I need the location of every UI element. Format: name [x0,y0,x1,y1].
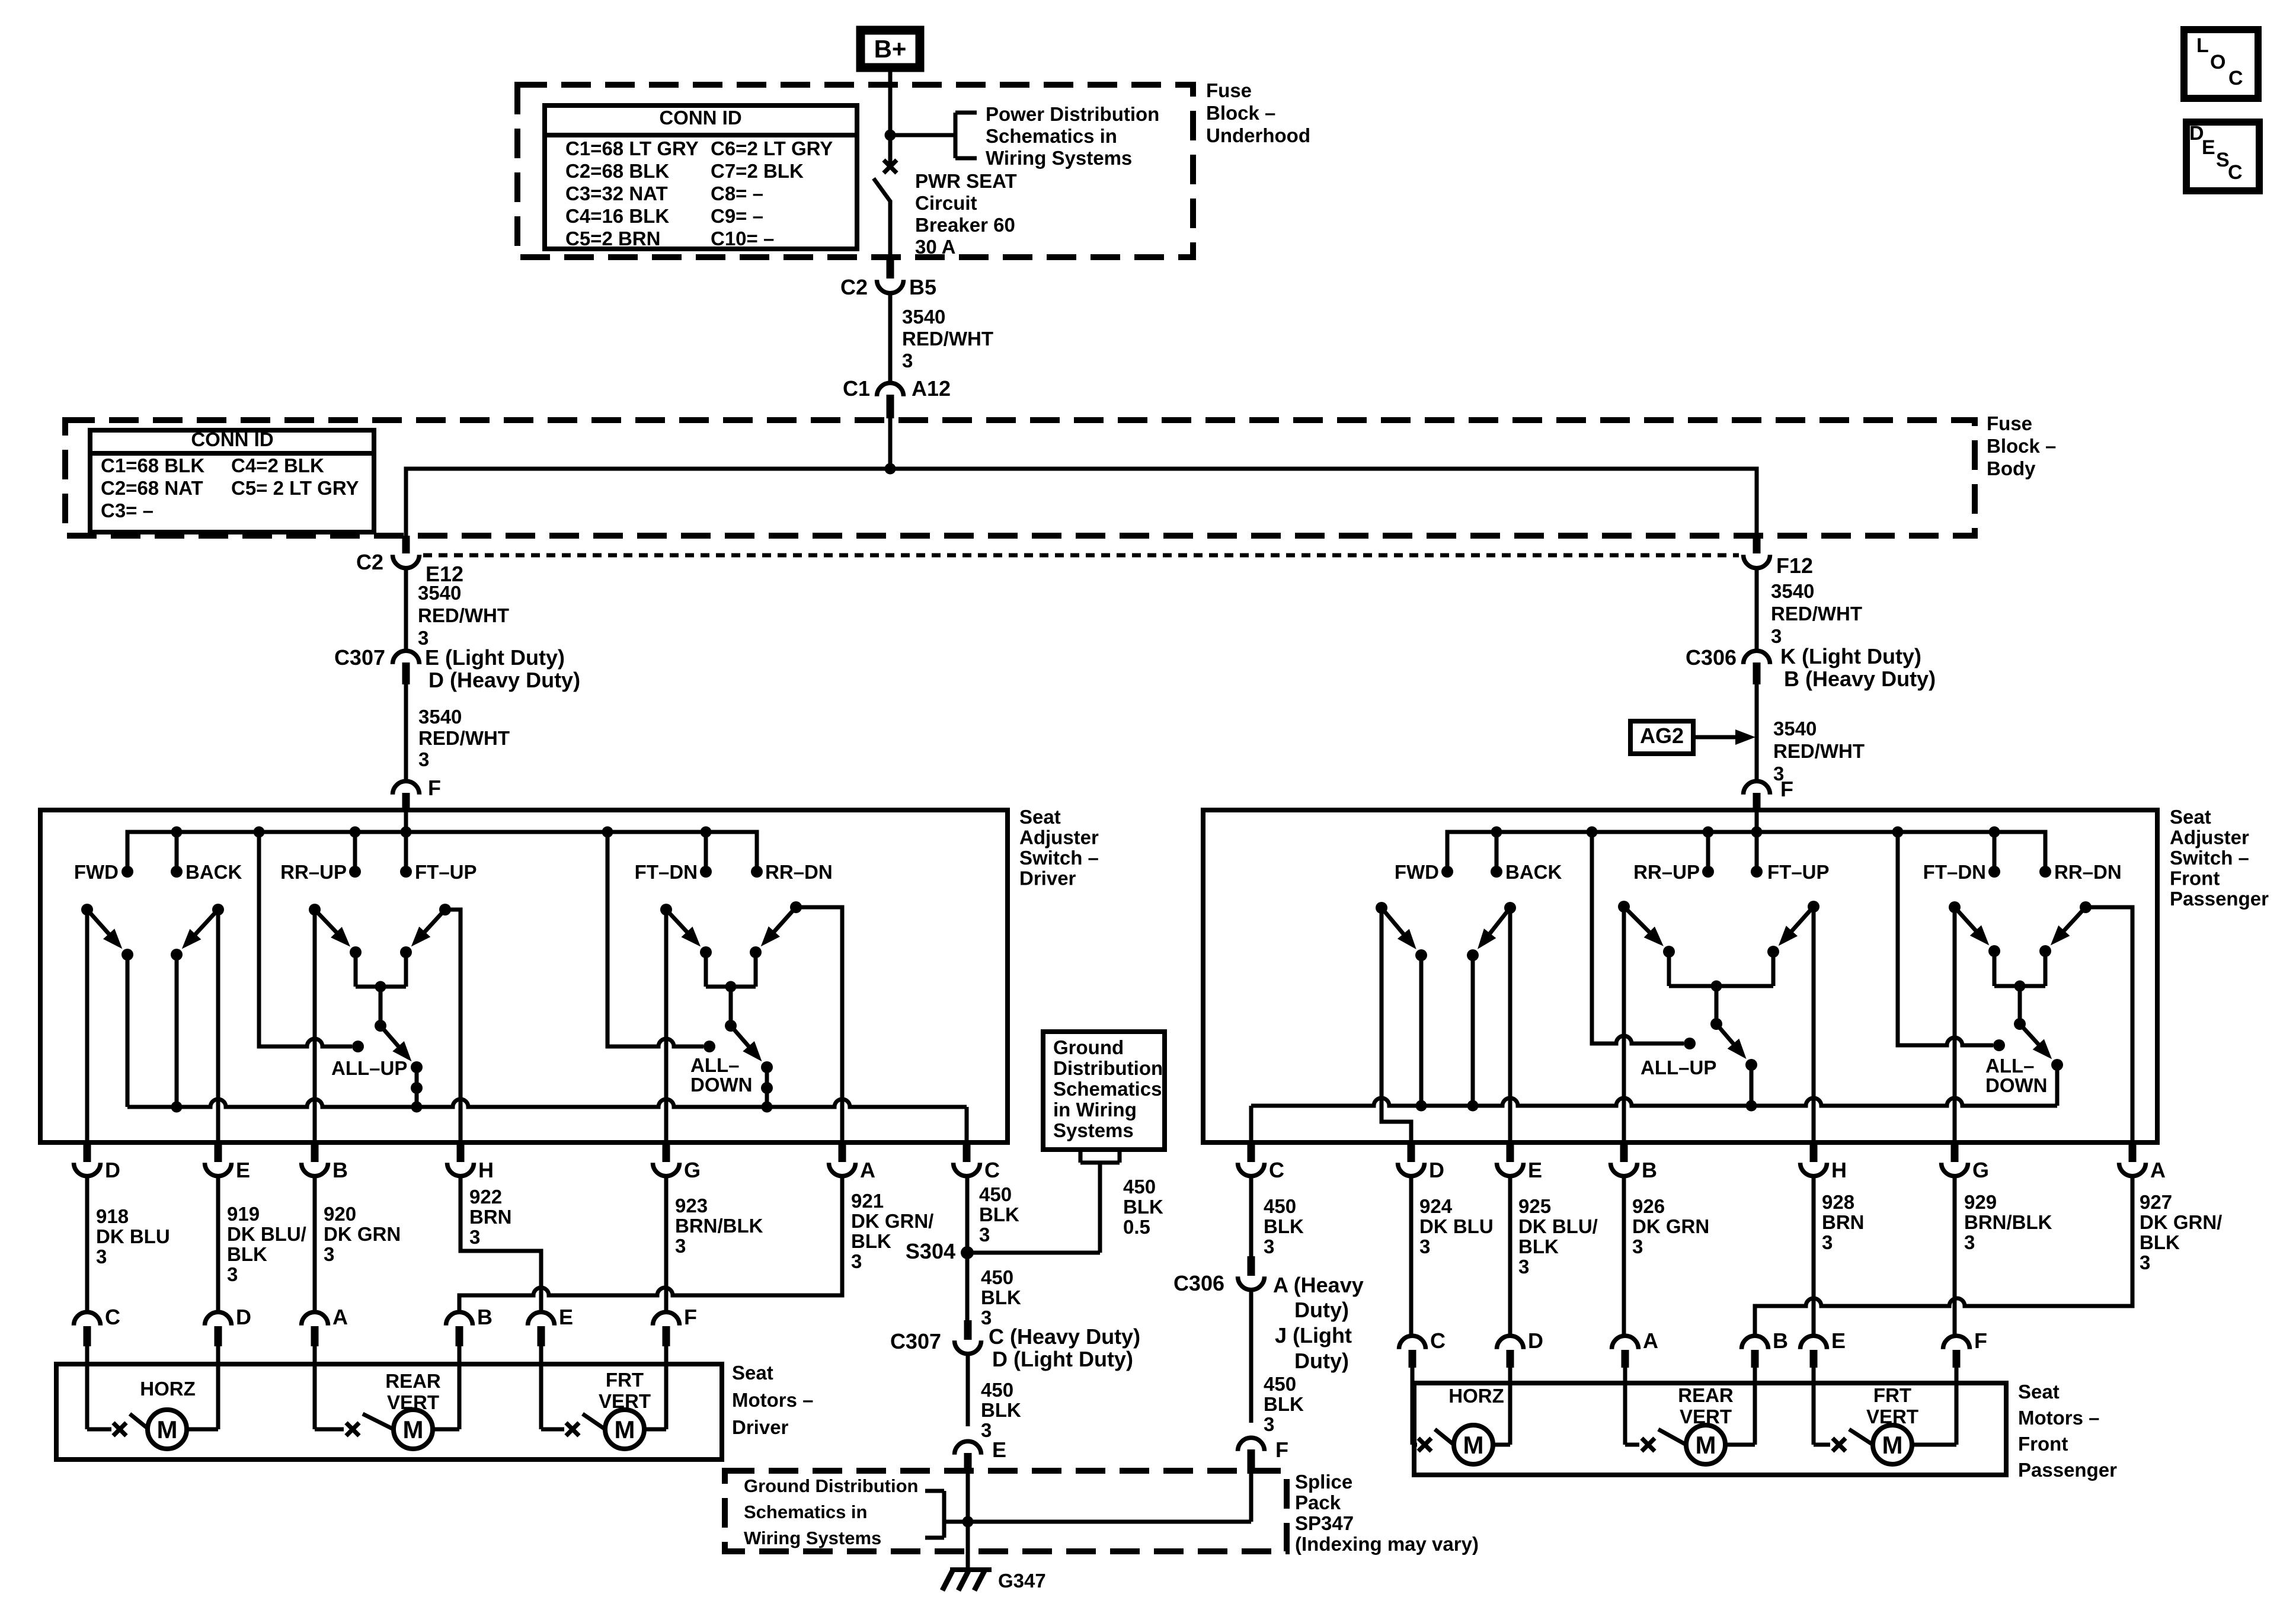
label HORZ driver [140,1378,196,1400]
svg-text:Distribution: Distribution [1053,1057,1163,1079]
wire C1 into fuse block body [888,418,893,469]
wire 923 BRN/BLK [664,1174,669,1312]
switch blade FT-UP (passenger) [1779,901,1819,946]
svg-text:Passenger: Passenger [2018,1459,2117,1481]
label wire 920 [324,1203,401,1265]
label REAR VERT passenger [1678,1384,1734,1427]
svg-text:M: M [615,1416,635,1443]
wire 921 DK GRN/BLK [459,1174,842,1312]
label wire 450 BLK (passenger 2) [1264,1373,1304,1435]
svg-text:E: E [559,1305,573,1329]
svg-text:RED/WHT: RED/WHT [418,727,510,749]
switch blade FWD (passenger) [1376,902,1416,949]
svg-text:RR–DN: RR–DN [765,861,833,883]
svg-text:3: 3 [96,1246,107,1267]
connector passenger motor pin B [1742,1329,1789,1383]
contact FT-UP (passenger) [1751,861,1830,883]
svg-text:C307: C307 [334,645,385,670]
wire 450 BLK to splice F [1249,1291,1253,1423]
node ALL-UP feed branch (driver) [254,827,265,838]
svg-text:FRT: FRT [1873,1384,1911,1406]
wire FWD throw to lower bus [126,955,130,1107]
svg-text:RED/WHT: RED/WHT [902,328,993,350]
svg-text:G: G [1972,1158,1989,1182]
connector F passenger switch [1744,781,1770,810]
label ALL-DOWN (passenger) [1985,1055,2047,1096]
contact dot ALL-UP throw (passenger) [1745,1059,1757,1112]
connector driver switch pin B [302,1144,348,1182]
node ALL-DOWN feed branch (driver) [602,827,613,838]
switch blade FWD (driver) [81,904,122,949]
label wire 450 BLK (passenger 1) [1264,1195,1304,1257]
wire G drop (driver) [664,910,669,1142]
wire 926 DK GRN [1622,1174,1626,1334]
svg-text:Body: Body [1987,457,2036,479]
svg-text:3: 3 [981,1419,992,1441]
label fuse block underhood [1206,79,1310,146]
node and wire RR-UP branch (driver) [350,827,361,872]
wire 450 BLK passenger drop [1249,1174,1253,1256]
wire B drop (driver) [313,910,317,1142]
connector driver switch pin D [74,1144,121,1182]
wire ALL-UP yoke (passenger) [1669,952,1773,1024]
label power distribution note [986,103,1159,169]
driver switch top bus [127,832,757,872]
label C306 (A/J) [1173,1271,1224,1295]
svg-text:A: A [332,1305,348,1329]
svg-text:RED/WHT: RED/WHT [1773,740,1865,762]
wire D drop (driver) [85,910,89,1142]
label C307 pin E [425,645,565,670]
wire 924 DK BLU [1409,1174,1414,1334]
svg-text:D: D [105,1158,120,1182]
svg-text:F: F [1974,1329,1987,1353]
svg-text:BLK: BLK [1518,1235,1559,1257]
contact dots ALL-DOWN throw (driver) [761,1061,773,1113]
motor REAR VERT driver [315,1364,459,1449]
svg-text:DK GRN/: DK GRN/ [851,1210,933,1232]
svg-text:3: 3 [1419,1235,1430,1257]
svg-text:3: 3 [324,1243,334,1265]
wire 920 DK GRN [313,1174,317,1312]
svg-text:3: 3 [227,1263,238,1285]
label wire 918 [96,1205,170,1267]
svg-text:BRN/BLK: BRN/BLK [1964,1211,2052,1233]
svg-text:M: M [1696,1431,1716,1459]
svg-text:BLK: BLK [981,1399,1021,1421]
label A12 [912,376,951,401]
svg-text:VERT: VERT [599,1390,651,1412]
wire 919 DK BLU/BLK [216,1174,220,1312]
label PWR SEAT circuit breaker [915,170,1017,258]
svg-text:C (Heavy Duty): C (Heavy Duty) [989,1324,1140,1349]
label wire 450 BLK (to splice) [981,1379,1021,1441]
connector passenger switch pin C [1238,1144,1285,1182]
svg-text:E: E [236,1158,250,1182]
svg-text:H: H [1831,1158,1847,1182]
switch blade RR-DN (passenger) [2051,901,2092,945]
splice pack bracket [925,1491,944,1538]
label ALL-UP (passenger) [1641,1057,1716,1078]
AG2 arrow [1693,729,1755,745]
node junction fuse block body bus [885,463,896,475]
passenger feed wire F to FT-UP [1755,810,1759,872]
svg-text:3: 3 [1264,1413,1274,1435]
svg-text:REAR: REAR [385,1370,441,1392]
connector driver switch pin H [447,1144,494,1182]
svg-text:927: 927 [2140,1191,2172,1213]
svg-text:3540: 3540 [902,306,945,328]
wire 927 DK GRN/BLK [1755,1174,2132,1334]
connector C1 pin A12 [877,383,904,418]
label wire 922 [469,1186,512,1248]
contact FT-DN (driver) [635,861,712,883]
node ALL-UP feed branch (passenger) [1587,827,1598,838]
svg-text:Pack: Pack [1295,1491,1341,1513]
svg-text:Adjuster: Adjuster [1019,827,1099,849]
label B5 [909,275,936,299]
label C306 pin B [1784,667,1936,691]
label FRT VERT driver [599,1369,651,1412]
contact ALL-DOWN (driver) [703,1041,715,1052]
svg-text:BACK: BACK [1505,861,1562,883]
svg-text:C: C [2228,67,2243,89]
svg-text:F: F [684,1305,697,1329]
svg-text:CONN ID: CONN ID [659,107,741,129]
fuse block body internal bus [406,469,1757,536]
label seat motors driver [732,1362,814,1438]
svg-text:3: 3 [1964,1231,1975,1253]
switch blade BACK (driver) [182,904,224,949]
contact FT-DN (passenger) [1923,861,2000,883]
motor FRT VERT driver [541,1364,666,1449]
svg-text:Fuse: Fuse [1206,79,1252,101]
svg-text:C4=2 BLK: C4=2 BLK [231,454,324,476]
contact dots ALL-UP throw (driver) [411,1061,423,1113]
wire D drop (passenger) [1382,908,1411,1142]
wire BACK throw to lower bus [171,955,183,1113]
svg-text:3540: 3540 [418,706,462,728]
svg-text:Switch –: Switch – [1019,847,1099,869]
svg-text:923: 923 [675,1195,708,1217]
svg-text:BLK: BLK [2140,1231,2180,1253]
contact dot FWD throw (passenger) [1415,949,1427,961]
label F12 [1776,553,1813,578]
wire ALL-UP yoke (driver) [356,952,406,1026]
svg-text:BLK: BLK [1264,1393,1304,1415]
svg-text:RED/WHT: RED/WHT [1771,603,1862,625]
svg-text:BLK: BLK [979,1204,1019,1225]
label E12 [426,562,463,586]
svg-text:928: 928 [1822,1191,1854,1213]
fuse block body box [65,420,1975,536]
ground distribution note box [1043,1032,1165,1150]
svg-text:E: E [1528,1158,1542,1182]
contact dot FT-DN throw (passenger) [1988,945,2000,957]
circuit breaker 60 contact x [884,160,897,173]
svg-text:FT–UP: FT–UP [415,861,477,883]
connector passenger switch pin A [2119,1144,2166,1182]
label wire 927 [2140,1191,2222,1273]
connector ID table body [90,428,374,532]
contact RR-DN (driver) [751,861,833,883]
contact RR-UP (passenger) [1633,861,1714,883]
label wire 3540 RED/WHT 3 (left) [418,582,509,649]
node feed junction (passenger) [1751,827,1763,838]
switch blade FT-DN (passenger) [1949,901,1989,945]
wire breaker to connector C2-B5 [888,200,893,257]
svg-text:B5: B5 [909,275,936,299]
svg-text:3: 3 [1518,1256,1529,1278]
svg-text:BLK: BLK [227,1243,267,1265]
label fuse block body [1987,412,2056,479]
svg-text:920: 920 [324,1203,356,1225]
node and wire FT-DN branch (driver) [701,827,712,872]
label splice pin F [1275,1438,1288,1462]
svg-text:BLK: BLK [1123,1196,1163,1218]
svg-text:C307: C307 [890,1329,941,1353]
svg-text:Schematics: Schematics [1053,1078,1162,1100]
connector passenger motor pin E [1801,1329,1846,1383]
contact RR-UP (driver) [280,861,361,883]
wire FWD throw to lower bus (passenger) [1416,955,1427,1112]
svg-text:FT–DN: FT–DN [1923,861,1986,883]
svg-text:Duty): Duty) [1294,1349,1349,1373]
seat adjuster switch driver box [40,810,1008,1142]
label C307 [334,645,385,670]
svg-text:C10= –: C10= – [711,228,774,249]
svg-text:C7=2 BLK: C7=2 BLK [711,160,804,182]
svg-text:C1: C1 [843,376,870,401]
contact dot BACK throw (driver) [171,949,183,961]
wire 928 BRN [1812,1174,1816,1334]
label wire 928 [1822,1191,1865,1253]
label C307 (C/D) [890,1329,941,1353]
svg-text:DOWN: DOWN [690,1074,752,1096]
svg-text:AG2: AG2 [1640,724,1684,748]
label wire 3540 RED/WHT 3 (1) [902,306,993,372]
svg-text:C: C [1430,1329,1446,1353]
wire splice E to ground [966,1474,970,1570]
connector passenger switch pin E [1497,1144,1543,1182]
wire A drop (driver) [796,907,842,1142]
label wire 3540 RED/WHT 3 (right 2) [1773,718,1865,785]
svg-text:Seat: Seat [2170,806,2211,828]
svg-text:3540: 3540 [418,582,461,604]
connector passenger motor pin F [1943,1329,1988,1383]
svg-text:A (Heavy: A (Heavy [1273,1273,1364,1297]
svg-text:DOWN: DOWN [1985,1074,2047,1096]
svg-text:G: G [684,1158,701,1182]
svg-text:D: D [236,1305,251,1329]
svg-text:A12: A12 [912,376,951,401]
motor HORZ driver [87,1364,218,1449]
connector driver motor pin A [302,1305,348,1364]
fuse block underhood box [517,85,1193,257]
splice S304 [961,1246,974,1259]
wire ALL-DOWN yoke (passenger) [1994,951,2045,1024]
battery terminal B+ [861,30,920,68]
DESC reference box [2186,122,2259,191]
svg-text:C9= –: C9= – [711,205,763,227]
wire 3540 RED/WHT segment 1 [888,293,893,382]
label C306 pin K [1780,644,1921,668]
svg-text:BRN/BLK: BRN/BLK [675,1215,763,1237]
wire A drop (passenger) [2086,907,2132,1142]
wire 922 BRN [461,1174,541,1312]
svg-text:M: M [157,1416,178,1443]
svg-text:ALL–UP: ALL–UP [1641,1057,1716,1078]
svg-text:3: 3 [2140,1251,2150,1273]
label C2 (body) [356,550,383,574]
svg-text:C: C [105,1305,120,1329]
svg-text:K (Light Duty): K (Light Duty) [1780,644,1921,668]
svg-text:BLK: BLK [981,1286,1021,1308]
connector driver motor pin C [74,1305,121,1364]
svg-text:F: F [1275,1438,1288,1462]
svg-text:FWD: FWD [1395,861,1439,883]
connector splice pin E [955,1441,981,1474]
svg-text:(Indexing may vary): (Indexing may vary) [1295,1533,1479,1555]
switch blade RR-UP (driver) [309,904,350,947]
wire E drop (driver) [216,910,220,1142]
svg-text:Underhood: Underhood [1206,124,1310,146]
svg-text:B: B [1773,1329,1788,1353]
label ALL-DOWN (driver) [690,1054,752,1096]
svg-text:S304: S304 [906,1239,955,1263]
label seat motors front passenger [2018,1381,2117,1481]
svg-text:3: 3 [851,1250,862,1272]
svg-text:3540: 3540 [1771,580,1814,602]
connector driver motor pin E [528,1305,574,1364]
switch blade ALL-DOWN (passenger) [2014,1018,2052,1059]
label wire 919 [227,1203,306,1285]
svg-text:B: B [1642,1158,1657,1182]
splice pack SP347 box [725,1471,1287,1551]
svg-text:ALL–: ALL– [690,1054,740,1076]
node ALL-DOWN feed branch (passenger) [1892,827,1904,838]
switch blade ALL-UP (passenger) [1710,1018,1747,1059]
svg-text:C2=68 NAT: C2=68 NAT [101,477,203,499]
svg-text:D (Heavy Duty): D (Heavy Duty) [428,668,580,692]
node junction on B+ feed [885,130,896,141]
svg-text:VERT: VERT [1866,1406,1918,1427]
connector passenger switch pin G [1942,1144,1990,1182]
svg-text:FRT: FRT [606,1369,644,1391]
connector splice pin F [1238,1438,1265,1474]
svg-text:ALL–: ALL– [1985,1055,2035,1077]
svg-text:BACK: BACK [186,861,242,883]
switch blade FT-UP (driver) [411,904,451,946]
connector face dotted line [423,553,1739,558]
svg-text:C5=2 BRN: C5=2 BRN [565,228,660,249]
svg-text:DK BLU: DK BLU [96,1225,170,1247]
svg-text:3: 3 [979,1224,990,1246]
svg-text:3: 3 [418,748,429,770]
svg-text:E: E [1831,1329,1846,1353]
svg-text:C6=2 LT GRY: C6=2 LT GRY [711,137,833,159]
svg-text:Seat: Seat [1019,806,1061,828]
wire G drop (passenger) [1953,907,1957,1142]
contact dot FT-DN throw (driver) [700,946,712,958]
label splice pin E [992,1438,1006,1462]
label C1 [843,376,870,401]
connector ID table underhood [545,105,857,249]
wire 3540 RED/WHT left segment 2 [404,684,408,780]
svg-text:Schematics in: Schematics in [744,1502,867,1522]
svg-text:Block –: Block – [1206,102,1275,124]
svg-text:G347: G347 [998,1570,1046,1592]
svg-text:DK GRN: DK GRN [324,1223,401,1245]
svg-text:B: B [477,1305,493,1329]
svg-text:J (Light: J (Light [1275,1323,1352,1347]
label C306 pin A heavy 2 [1294,1298,1349,1322]
driver switch lower bus [127,1099,967,1142]
svg-text:FWD: FWD [74,861,119,883]
svg-text:926: 926 [1632,1195,1665,1217]
svg-text:DK GRN: DK GRN [1632,1215,1709,1237]
svg-text:BLK: BLK [1264,1215,1304,1237]
wire ALL-DOWN feed (passenger) [1898,832,1993,1045]
label FRT VERT passenger [1866,1384,1918,1427]
svg-text:450: 450 [981,1379,1013,1401]
label C2 [840,275,868,299]
wire B drop (passenger) [1622,907,1626,1142]
svg-text:Motors –: Motors – [732,1389,814,1411]
contact dot RR-DN throw (driver) [750,946,762,958]
svg-text:Front: Front [2170,868,2220,889]
connector driver switch pin A [829,1144,876,1182]
connector driver motor pin D [205,1305,252,1364]
svg-text:E: E [992,1438,1006,1462]
svg-text:HORZ: HORZ [140,1378,196,1400]
label C306 [1686,645,1737,670]
svg-text:C2=68 BLK: C2=68 BLK [565,160,669,182]
connector F12 [1744,536,1770,568]
wire 925 DK BLU/BLK [1508,1174,1512,1334]
node and wire BACK branch (driver) [171,827,183,872]
svg-text:Block –: Block – [1987,435,2056,457]
svg-text:924: 924 [1419,1195,1453,1217]
svg-text:in Wiring: in Wiring [1053,1099,1137,1121]
svg-text:H: H [478,1158,494,1182]
svg-text:HORZ: HORZ [1448,1385,1504,1407]
svg-text:F: F [1780,777,1793,801]
label seat adjuster switch passenger [2170,806,2269,910]
svg-text:919: 919 [227,1203,260,1225]
svg-text:F12: F12 [1776,553,1813,578]
switch blade FT-DN (driver) [660,904,701,947]
svg-text:Breaker 60: Breaker 60 [915,214,1015,236]
svg-text:Ground: Ground [1053,1036,1124,1058]
svg-text:C4=16 BLK: C4=16 BLK [565,205,669,227]
wire ALL-UP feed (passenger) [1592,832,1684,1044]
svg-text:Seat: Seat [2018,1381,2060,1403]
connector passenger switch pin D [1398,1144,1445,1182]
svg-text:E (Light Duty): E (Light Duty) [425,645,565,670]
svg-text:Splice: Splice [1295,1471,1352,1493]
svg-text:925: 925 [1518,1195,1551,1217]
svg-text:C2: C2 [356,550,383,574]
wire H drop (passenger) [1812,907,1816,1142]
net reference AG2 box [1630,721,1693,754]
svg-text:450: 450 [1264,1373,1296,1395]
svg-text:F: F [428,776,441,800]
svg-text:0.5: 0.5 [1123,1216,1150,1238]
label C307 pin D light [992,1347,1133,1371]
svg-text:B (Heavy Duty): B (Heavy Duty) [1784,667,1936,691]
wire 450 BLK 0.5 to S304 [967,1163,1100,1253]
